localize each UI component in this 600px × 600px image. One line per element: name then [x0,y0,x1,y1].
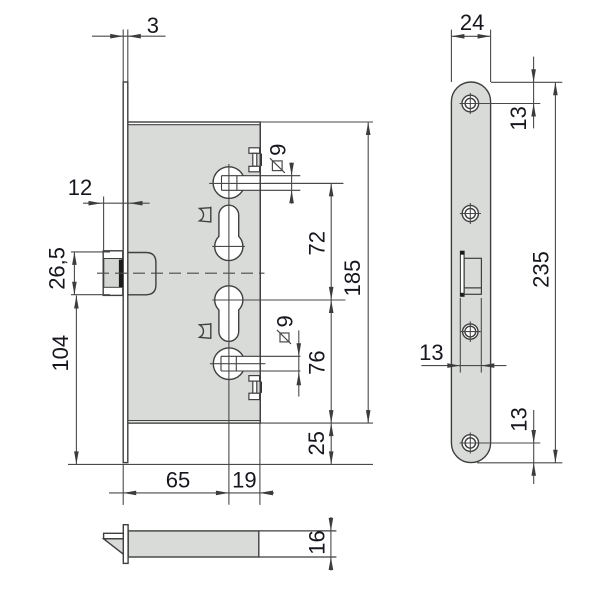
lower follower centre line [210,363,266,365]
dim 12 latch protrusion [68,175,150,252]
dim 104 [48,296,79,465]
cutout extension lines [460,298,481,373]
dim 72 [304,183,333,300]
faceplate edge-on strip [123,82,128,463]
svg-text:13: 13 [506,106,531,130]
svg-text:9: 9 [273,315,298,327]
bottom view case bar [128,531,259,557]
lower spring clip [200,323,211,339]
dim 76 [304,300,333,423]
svg-text:3: 3 [147,13,159,38]
lower stop pin [260,381,262,393]
dim 24 plate width [451,10,490,82]
svg-text:185: 185 [340,260,365,297]
extension line plate top right [491,81,562,83]
svg-text:72: 72 [304,231,329,255]
svg-text:12: 12 [68,175,92,200]
latch bolt edge in cutout [460,251,464,296]
dim 19 outside arrow [260,491,273,496]
dim 65 and 19 extension lines [123,423,260,505]
extension lines faceplate top [123,30,128,83]
dim 19 [232,468,273,496]
dim 13 cutout width [419,340,506,368]
svg-text:13: 13 [419,340,443,365]
lock case body [128,122,260,423]
screw hole top [460,93,541,114]
svg-text:9: 9 [266,144,291,156]
svg-text:26,5: 26,5 [44,247,69,290]
upper follower hub [213,167,300,199]
bottom view extension lines 16 [259,531,337,557]
screw hole second [460,203,481,224]
vertical centreline [228,164,230,505]
upper follower centre line [209,182,343,184]
extension line case top [260,121,373,123]
upper stop pin [260,153,262,166]
lower follower hub [213,348,300,380]
upper keyhole cutout [215,205,243,260]
latch bolt head [103,251,123,296]
latch body rounded [128,253,156,295]
bottom view latch flat [104,533,124,539]
cylinder screw hole [460,321,481,342]
lower adjuster cutout [249,376,260,400]
extension line plate bottom left [68,463,373,465]
dim dia9 lower [273,315,301,396]
svg-text:25: 25 [304,431,329,455]
case right edge line [259,122,261,423]
svg-text:76: 76 [304,350,329,374]
extension line plate bottom right [477,462,562,464]
dim 25 [304,423,333,464]
dashed centreline [97,272,265,274]
lower keyhole cutout [215,286,243,342]
bottom view faceplate section [123,525,128,564]
dim 13 top [506,57,536,131]
svg-text:65: 65 [166,468,190,493]
extension line cylinder centre [244,299,345,301]
dim 16 [305,517,334,571]
svg-text:16: 16 [305,530,330,554]
dim 13 bottom [507,407,536,484]
svg-text:24: 24 [460,10,484,35]
svg-text:13: 13 [507,407,532,431]
dim 26,5 latch height [44,247,110,295]
dim 3 faceplate thickness [92,13,166,39]
upper keyhole centre line [212,245,245,247]
dim 185 [340,122,371,423]
bottom view latch bevel [104,539,124,554]
faceplate front view [451,82,490,463]
lower keyhole centre line [212,299,345,301]
svg-text:235: 235 [529,251,554,288]
extension line hub centre 72 [263,182,343,184]
extension line case bottom [260,422,373,424]
latch cutout rect [464,258,481,294]
svg-text:104: 104 [48,335,73,372]
upper adjuster cutout [249,148,260,172]
dim dia9 upper [266,144,294,204]
dim 235 [529,82,558,463]
screw hole bottom [460,433,541,454]
upper spring clip [200,207,211,223]
svg-text:19: 19 [232,468,256,493]
dim 65 [109,468,274,496]
